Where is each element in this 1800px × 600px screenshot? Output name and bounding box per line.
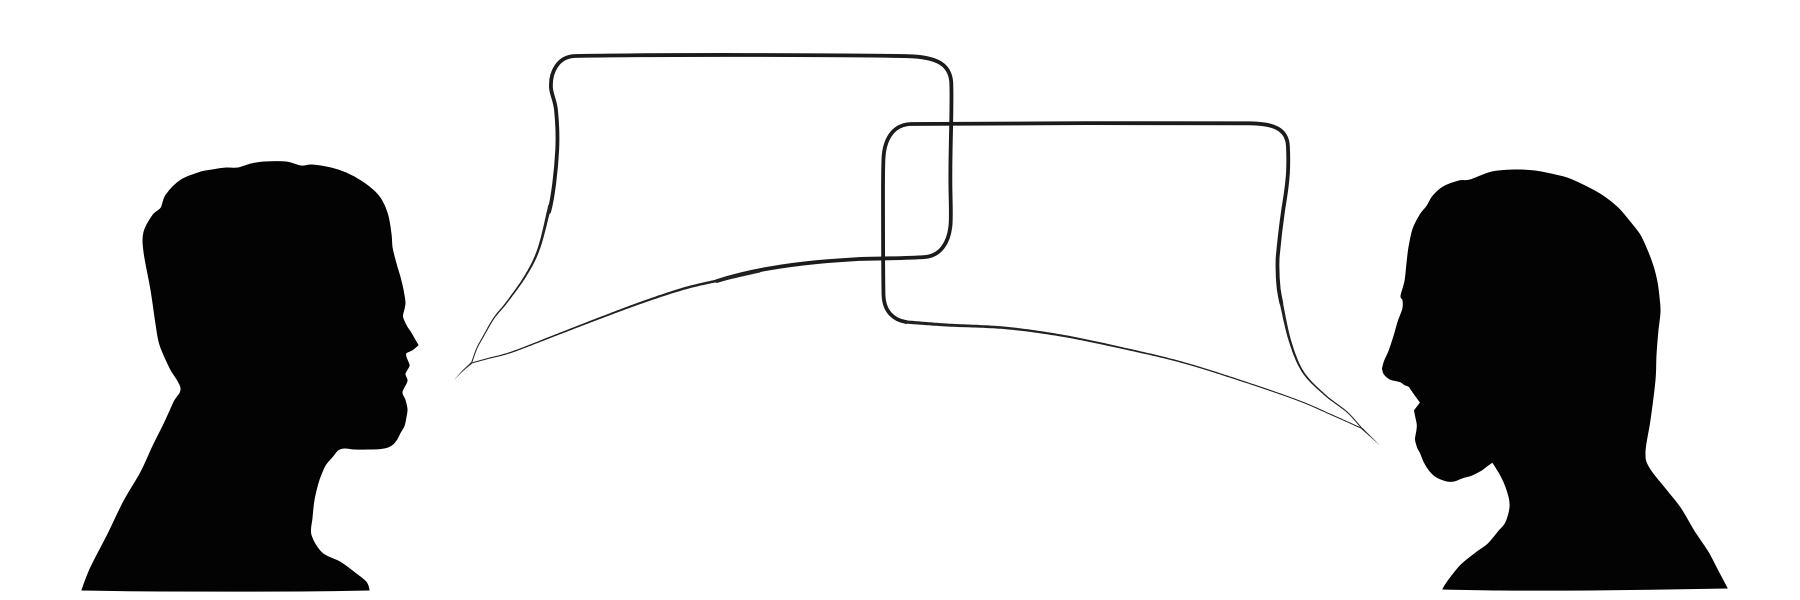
- speech bubble 1 body (left speaker): [549, 55, 952, 281]
- right man head silhouette: [1383, 170, 1728, 590]
- speech bubble 2 body (right speaker): [883, 123, 1288, 322]
- speech bubble 1 tail tip: [455, 362, 473, 379]
- speech bubble 1 tail bottom curve: [471, 270, 760, 364]
- speech bubble 2 tail right curve: [1280, 303, 1363, 429]
- left man head silhouette: [82, 162, 418, 592]
- speech bubble 2 tail tip: [1362, 428, 1380, 445]
- speech bubble 1 tail left curve: [471, 205, 552, 364]
- speech bubble 2 tail bottom curve: [906, 320, 1362, 429]
